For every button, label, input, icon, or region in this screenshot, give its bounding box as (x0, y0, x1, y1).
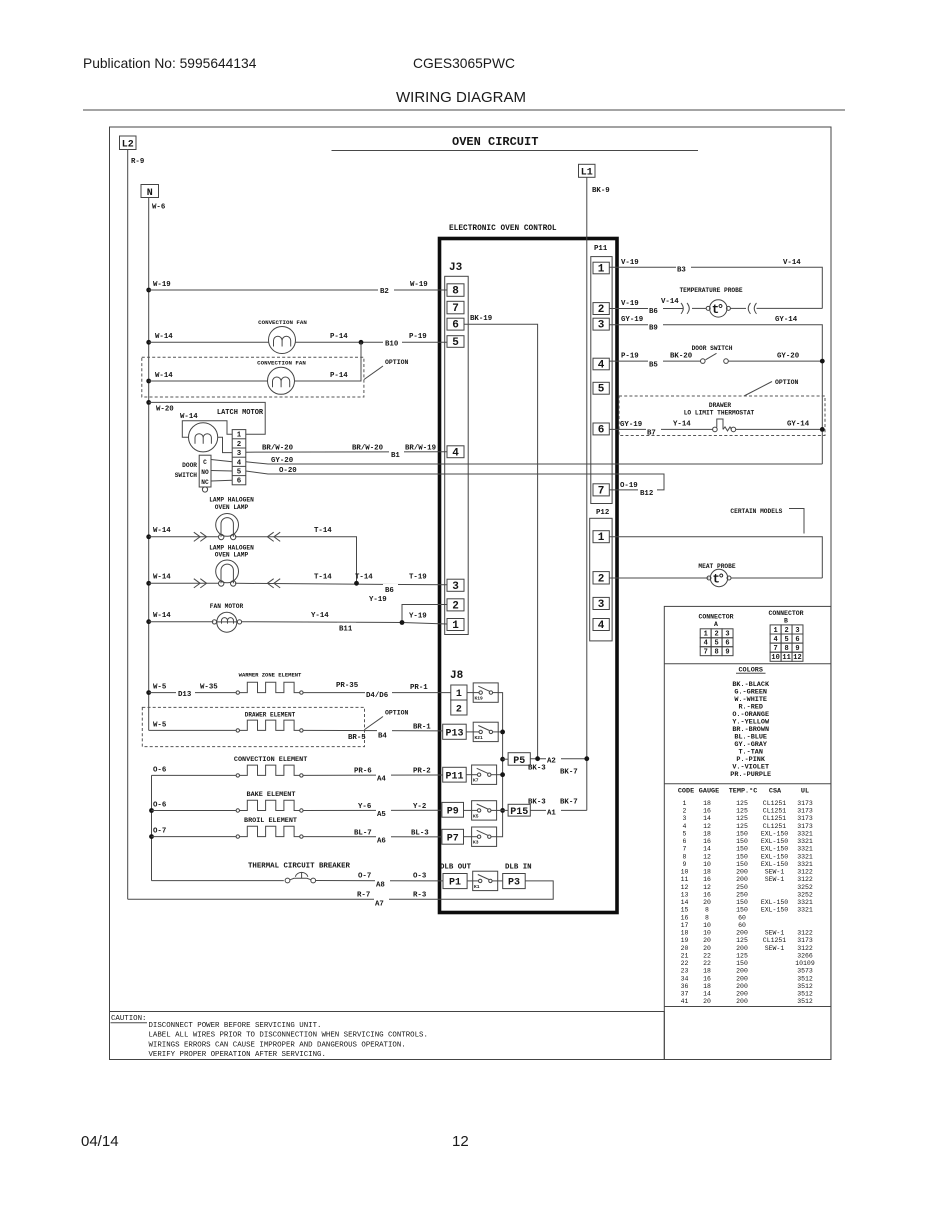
svg-text:B4: B4 (378, 733, 387, 741)
svg-text:10109: 10109 (795, 960, 815, 967)
svg-text:8: 8 (683, 853, 687, 860)
svg-text:O-20: O-20 (279, 467, 297, 475)
table block divider under connectors (664, 663, 831, 665)
svg-text:8: 8 (705, 907, 709, 914)
svg-text:4: 4 (773, 636, 777, 644)
svg-text:15: 15 (681, 907, 689, 914)
svg-text:7: 7 (598, 485, 605, 497)
svg-text:P12: P12 (596, 509, 609, 517)
svg-text:GY-14: GY-14 (787, 421, 810, 429)
svg-text:3122: 3122 (797, 930, 813, 937)
svg-text:J3: J3 (449, 262, 463, 274)
svg-text:GY-14: GY-14 (775, 316, 798, 324)
svg-text:200: 200 (736, 983, 748, 990)
svg-text:1: 1 (452, 620, 459, 632)
svg-text:10: 10 (703, 930, 711, 937)
svg-text:K7: K7 (473, 778, 479, 784)
svg-text:10: 10 (681, 869, 689, 876)
svg-text:A2: A2 (547, 758, 556, 766)
svg-text:200: 200 (736, 998, 748, 1005)
svg-text:T-14: T-14 (314, 527, 332, 535)
svg-text:EXL-150: EXL-150 (761, 831, 788, 838)
svg-text:B10: B10 (385, 341, 399, 349)
svg-text:8: 8 (784, 645, 788, 653)
svg-text:THERMAL CIRCUIT BREAKER: THERMAL CIRCUIT BREAKER (248, 863, 351, 871)
svg-text:16: 16 (703, 891, 711, 898)
svg-text:B7: B7 (647, 430, 656, 438)
junction dots on O rail (149, 808, 154, 839)
svg-text:B6: B6 (385, 587, 394, 595)
wire B3 from P11-1 (609, 267, 822, 308)
svg-text:P11: P11 (445, 771, 463, 782)
svg-text:BR-5: BR-5 (348, 734, 366, 742)
svg-text:4: 4 (598, 360, 605, 372)
svg-text:125: 125 (736, 800, 748, 807)
svg-text:3173: 3173 (797, 815, 813, 822)
svg-text:DLB IN: DLB IN (505, 864, 532, 872)
svg-text:TEMP.°C: TEMP.°C (729, 787, 758, 796)
svg-text:150: 150 (736, 960, 748, 967)
svg-text:5: 5 (237, 469, 242, 477)
svg-text:A4: A4 (377, 776, 386, 784)
svg-text:16: 16 (703, 808, 711, 815)
svg-text:22: 22 (703, 960, 711, 967)
svg-text:2: 2 (452, 600, 459, 612)
svg-text:GY-20: GY-20 (271, 457, 294, 465)
svg-text:6: 6 (725, 640, 729, 648)
svg-text:W-14: W-14 (153, 612, 171, 620)
svg-text:150: 150 (736, 899, 748, 906)
svg-text:OPTION: OPTION (385, 359, 409, 366)
svg-text:BAKE ELEMENT: BAKE ELEMENT (247, 791, 296, 799)
svg-text:B: B (784, 618, 788, 625)
svg-text:BK-7: BK-7 (560, 799, 578, 807)
svg-text:125: 125 (736, 937, 748, 944)
junction dot fan lines (359, 340, 364, 345)
connector P11 board (443, 767, 467, 782)
svg-text:3: 3 (683, 815, 687, 822)
svg-text:PR-1: PR-1 (410, 684, 428, 692)
svg-text:PR.-PURPLE: PR.-PURPLE (730, 771, 771, 779)
svg-text:3252: 3252 (797, 884, 813, 891)
svg-text:3173: 3173 (797, 937, 813, 944)
svg-text:20: 20 (703, 998, 711, 1005)
svg-text:5: 5 (714, 640, 718, 648)
svg-text:BK-20: BK-20 (670, 353, 693, 361)
svg-text:K5: K5 (473, 813, 479, 819)
svg-text:T-19: T-19 (409, 574, 427, 582)
svg-text:B3: B3 (677, 267, 686, 275)
svg-text:14: 14 (703, 991, 711, 998)
connector P9 (442, 802, 464, 817)
svg-text:3512: 3512 (797, 983, 813, 990)
svg-text:20: 20 (703, 937, 711, 944)
svg-text:CONVECTION FAN: CONVECTION FAN (258, 319, 307, 326)
svg-text:P7: P7 (447, 833, 459, 844)
wire W-14 fan1 to B10 to J3-5 (149, 341, 269, 343)
svg-text:t°: t° (712, 303, 723, 317)
connector P15 (508, 804, 530, 816)
svg-text:200: 200 (736, 945, 748, 952)
svg-text:18: 18 (703, 968, 711, 975)
svg-text:200: 200 (736, 991, 748, 998)
svg-text:4: 4 (237, 459, 242, 467)
svg-text:UL: UL (801, 788, 809, 796)
connector P7 (442, 829, 464, 844)
svg-text:P-14: P-14 (330, 372, 348, 380)
svg-text:2: 2 (683, 808, 687, 815)
svg-text:37: 37 (681, 991, 689, 998)
svg-text:J8: J8 (450, 670, 464, 682)
svg-text:9: 9 (795, 645, 799, 653)
svg-text:3321: 3321 (797, 861, 813, 868)
junction dot lamp lines (354, 581, 359, 586)
svg-text:A1: A1 (547, 810, 556, 818)
svg-text:200: 200 (736, 876, 748, 883)
svg-text:CONNECTOR: CONNECTOR (768, 610, 803, 617)
svg-text:B5: B5 (649, 362, 658, 370)
svg-text:B1: B1 (391, 452, 400, 460)
svg-text:3321: 3321 (797, 838, 813, 845)
svg-text:18: 18 (681, 930, 689, 937)
svg-text:16: 16 (703, 838, 711, 845)
svg-text:3252: 3252 (797, 891, 813, 898)
svg-text:CSA: CSA (769, 788, 782, 796)
OVEN CIRCUIT underline (332, 150, 699, 152)
svg-text:20: 20 (681, 945, 689, 952)
relay output bus (497, 693, 503, 837)
svg-text:250: 250 (736, 884, 748, 891)
svg-text:K3: K3 (473, 840, 479, 846)
svg-text:3321: 3321 (797, 899, 813, 906)
thermostat (609, 428, 712, 430)
relay K1 (473, 871, 498, 890)
junction dots on N rail (146, 288, 151, 695)
svg-text:B9: B9 (649, 325, 658, 333)
svg-text:3321: 3321 (797, 831, 813, 838)
svg-text:LAMP HALOGEN: LAMP HALOGEN (209, 544, 254, 551)
svg-text:60: 60 (738, 922, 746, 929)
svg-text:3266: 3266 (797, 952, 813, 959)
svg-text:9: 9 (725, 649, 729, 657)
svg-text:P-14: P-14 (330, 333, 348, 341)
svg-text:3: 3 (725, 631, 729, 639)
svg-text:BK-9: BK-9 (592, 187, 610, 195)
svg-text:OVEN CIRCUIT: OVEN CIRCUIT (452, 135, 538, 149)
svg-text:A8: A8 (376, 882, 385, 890)
svg-text:CONNECTOR: CONNECTOR (698, 614, 733, 621)
svg-text:8: 8 (705, 914, 709, 921)
svg-text:150: 150 (736, 838, 748, 845)
svg-text:11: 11 (681, 876, 689, 883)
svg-text:250: 250 (736, 891, 748, 898)
node L1 (579, 164, 596, 177)
wire O-20 long return line (246, 471, 664, 490)
svg-text:5: 5 (784, 636, 788, 644)
caution box (110, 1012, 665, 1060)
wire W-14 latch lead to pin1 (182, 421, 232, 438)
svg-text:Y-2: Y-2 (413, 803, 426, 811)
svg-text:FAN MOTOR: FAN MOTOR (210, 603, 244, 610)
wire L2 rail R-9 (127, 150, 129, 900)
svg-text:3122: 3122 (797, 869, 813, 876)
svg-text:P13: P13 (445, 728, 463, 739)
svg-text:B11: B11 (339, 626, 353, 634)
svg-text:125: 125 (736, 823, 748, 830)
svg-text:SWITCH: SWITCH (175, 472, 198, 479)
wire W-14 fan motor line Y-19 to J3-1 (149, 621, 214, 623)
svg-text:T-14: T-14 (355, 574, 373, 582)
svg-text:Y-19: Y-19 (409, 613, 427, 621)
svg-text:12: 12 (703, 823, 711, 830)
svg-text:WIRING DIAGRAM: WIRING DIAGRAM (396, 89, 526, 106)
svg-text:200: 200 (736, 930, 748, 937)
svg-text:VERIFY PROPER OPERATION AFTER: VERIFY PROPER OPERATION AFTER SERVICING. (149, 1051, 326, 1059)
svg-text:GY-20: GY-20 (777, 353, 800, 361)
svg-text:K19: K19 (475, 696, 484, 702)
svg-text:5: 5 (452, 337, 459, 349)
table block outer box (664, 606, 831, 1059)
svg-text:1: 1 (598, 264, 605, 276)
svg-text:Y-14: Y-14 (311, 612, 329, 620)
svg-text:CL1251: CL1251 (763, 937, 787, 944)
svg-text:EXL-150: EXL-150 (761, 838, 788, 845)
svg-text:200: 200 (736, 975, 748, 982)
svg-text:3321: 3321 (797, 846, 813, 853)
svg-text:16: 16 (703, 975, 711, 982)
svg-text:DLB OUT: DLB OUT (440, 864, 472, 872)
svg-text:Y-6: Y-6 (358, 803, 372, 811)
svg-text:P9: P9 (447, 806, 459, 817)
svg-text:P11: P11 (594, 245, 608, 253)
svg-text:W-14: W-14 (153, 574, 171, 582)
relay K19 (473, 683, 498, 702)
svg-text:21: 21 (681, 952, 689, 959)
svg-text:A6: A6 (377, 838, 386, 846)
svg-text:7: 7 (704, 649, 708, 657)
svg-text:150: 150 (736, 861, 748, 868)
svg-text:EXL-150: EXL-150 (761, 861, 788, 868)
wire Y-19 branch to J3-2 (402, 605, 447, 623)
svg-text:2: 2 (598, 573, 605, 585)
svg-text:R-7: R-7 (357, 892, 370, 900)
svg-text:N: N (147, 188, 153, 199)
svg-text:Y-19: Y-19 (369, 596, 387, 604)
svg-text:BR/W-20: BR/W-20 (262, 445, 294, 453)
node N (141, 185, 159, 198)
latch connector strip pins 1-6 (232, 430, 246, 485)
svg-text:1: 1 (237, 432, 242, 440)
svg-text:C: C (203, 459, 207, 466)
svg-text:36: 36 (681, 983, 689, 990)
wire W-19 to J3-8 (149, 289, 447, 291)
svg-text:150: 150 (736, 853, 748, 860)
svg-text:P3: P3 (508, 878, 520, 889)
svg-text:CONVECTION ELEMENT: CONVECTION ELEMENT (234, 756, 307, 764)
svg-text:12: 12 (681, 884, 689, 891)
svg-text:PR-6: PR-6 (354, 768, 372, 776)
svg-text:B2: B2 (380, 288, 389, 296)
svg-text:3: 3 (452, 581, 459, 593)
wire gauge table rows (681, 800, 815, 1005)
svg-text:9: 9 (683, 861, 687, 868)
connector P13 (443, 724, 467, 739)
wire BR/W-20 pin3 to B1 to J3-4 (246, 451, 447, 454)
svg-text:SEW-1: SEW-1 (765, 945, 785, 952)
svg-text:Y-14: Y-14 (673, 421, 691, 429)
connector chevrons lamp1 (194, 532, 280, 541)
wire N rail W-6 (148, 198, 150, 731)
svg-text:18: 18 (703, 831, 711, 838)
svg-text:1: 1 (456, 689, 462, 700)
svg-text:LAMP HALOGEN: LAMP HALOGEN (209, 497, 254, 504)
svg-text:MEAT PROBE: MEAT PROBE (698, 563, 735, 570)
svg-text:P5: P5 (513, 756, 525, 767)
svg-text:125: 125 (736, 815, 748, 822)
svg-text:W-5: W-5 (153, 684, 167, 692)
svg-text:4: 4 (704, 640, 708, 648)
svg-text:PR-2: PR-2 (413, 768, 431, 776)
svg-text:B12: B12 (640, 490, 653, 498)
svg-text:P-19: P-19 (409, 333, 427, 341)
svg-text:DOOR: DOOR (182, 462, 197, 469)
svg-text:6: 6 (598, 424, 605, 436)
svg-text:150: 150 (736, 907, 748, 914)
svg-text:200: 200 (736, 968, 748, 975)
svg-text:BK-7: BK-7 (560, 769, 578, 777)
svg-text:10: 10 (703, 922, 711, 929)
svg-text:LATCH MOTOR: LATCH MOTOR (217, 409, 264, 417)
svg-text:P15: P15 (510, 807, 528, 818)
svg-text:BR/W-19: BR/W-19 (405, 445, 436, 453)
svg-text:EXL-150: EXL-150 (761, 853, 788, 860)
electronic oven control box (440, 239, 618, 913)
svg-text:GAUGE: GAUGE (699, 788, 719, 796)
svg-text:PR-35: PR-35 (336, 682, 359, 690)
svg-text:7: 7 (452, 303, 459, 315)
svg-text:BL-3: BL-3 (411, 830, 429, 838)
wires door switch C NO NC to pins 4 5 6 (211, 460, 232, 462)
svg-text:6: 6 (452, 320, 459, 332)
svg-text:8: 8 (452, 286, 459, 298)
svg-text:B6: B6 (649, 308, 658, 316)
svg-text:W-14: W-14 (180, 413, 198, 421)
svg-text:DISCONNECT POWER BEFORE SERVIC: DISCONNECT POWER BEFORE SERVICING UNIT. (149, 1022, 322, 1030)
svg-text:4: 4 (452, 447, 459, 459)
wire B9 GY-14 (609, 325, 822, 464)
svg-text:1: 1 (773, 627, 777, 635)
svg-text:2: 2 (237, 441, 241, 449)
svg-text:13: 13 (681, 891, 689, 898)
node L2 (120, 136, 137, 150)
header rule line (83, 109, 845, 111)
svg-text:22: 22 (681, 960, 689, 967)
svg-text:LO LIMIT THERMOSTAT: LO LIMIT THERMOSTAT (684, 410, 755, 417)
svg-text:W-14: W-14 (155, 372, 173, 380)
svg-text:A5: A5 (377, 811, 386, 819)
svg-text:WIRINGS ERRORS CAN CAUSE IMPRO: WIRINGS ERRORS CAN CAUSE IMPROPER AND DA… (149, 1041, 406, 1049)
svg-text:8: 8 (714, 649, 718, 657)
svg-text:6: 6 (795, 636, 799, 644)
svg-text:V-19: V-19 (621, 259, 639, 267)
svg-text:150: 150 (736, 831, 748, 838)
wire A1 from P15 to L1 line (530, 809, 587, 811)
svg-text:20: 20 (703, 945, 711, 952)
svg-text:OPTION: OPTION (385, 710, 409, 717)
svg-text:A: A (714, 621, 718, 628)
svg-text:BL-7: BL-7 (354, 830, 372, 838)
svg-text:P-19: P-19 (621, 353, 639, 361)
svg-text:4: 4 (598, 620, 605, 632)
svg-text:K1: K1 (474, 884, 480, 890)
svg-text:6: 6 (237, 478, 242, 486)
svg-text:W-19: W-19 (410, 281, 428, 289)
svg-text:CGES3065PWC: CGES3065PWC (413, 56, 515, 71)
wire L1 BK-9 drop into control (586, 177, 588, 810)
svg-text:3321: 3321 (797, 907, 813, 914)
svg-text:BR-1: BR-1 (413, 724, 431, 732)
svg-text:NC: NC (201, 479, 209, 486)
svg-text:3173: 3173 (797, 808, 813, 815)
connector P5 (508, 753, 530, 766)
svg-text:CL1251: CL1251 (763, 815, 787, 822)
svg-text:D13: D13 (178, 691, 192, 699)
svg-text:12: 12 (793, 654, 801, 662)
svg-text:5: 5 (598, 384, 605, 396)
svg-text:W-14: W-14 (155, 333, 173, 341)
relay K5 (472, 801, 497, 820)
svg-text:BK-3: BK-3 (528, 799, 546, 807)
svg-text:V-19: V-19 (621, 300, 639, 308)
svg-text:WARMER ZONE ELEMENT: WARMER ZONE ELEMENT (239, 672, 302, 679)
svg-text:60: 60 (738, 914, 746, 921)
svg-text:CODE: CODE (678, 788, 694, 796)
svg-text:D4/D6: D4/D6 (366, 692, 389, 700)
svg-text:EXL-150: EXL-150 (761, 907, 788, 914)
svg-text:A7: A7 (375, 901, 384, 909)
svg-text:O-6: O-6 (153, 802, 167, 810)
svg-text:3512: 3512 (797, 991, 813, 998)
svg-text:14: 14 (703, 846, 711, 853)
svg-text:NO: NO (201, 469, 209, 476)
svg-text:R-9: R-9 (131, 158, 144, 166)
svg-text:SEW-1: SEW-1 (765, 876, 785, 883)
svg-text:W-20: W-20 (156, 406, 174, 414)
svg-text:BROIL ELEMENT: BROIL ELEMENT (244, 817, 297, 825)
svg-text:2: 2 (598, 304, 605, 316)
caution text (149, 1022, 428, 1059)
svg-text:LABEL ALL WIRES PRIOR TO DISCO: LABEL ALL WIRES PRIOR TO DISCONNECTION W… (149, 1032, 428, 1040)
svg-text:DRAWER ELEMENT: DRAWER ELEMENT (245, 712, 296, 719)
wire A2 from P5 to L1 line (530, 758, 587, 760)
svg-text:2: 2 (784, 627, 788, 635)
svg-text:CL1251: CL1251 (763, 800, 787, 807)
svg-text:3: 3 (237, 450, 242, 458)
svg-text:3: 3 (598, 320, 605, 332)
wire W-14 lamp1 line (149, 536, 219, 538)
latch motor (189, 423, 218, 452)
svg-text:L1: L1 (581, 168, 593, 179)
svg-text:3: 3 (598, 599, 605, 611)
svg-text:O-7: O-7 (153, 828, 166, 836)
svg-text:SEW-1: SEW-1 (765, 869, 785, 876)
svg-text:BR/W-20: BR/W-20 (352, 445, 384, 453)
svg-text:1: 1 (683, 800, 687, 807)
wire O rail (151, 775, 153, 880)
svg-text:1: 1 (704, 631, 708, 639)
svg-text:41: 41 (681, 998, 689, 1005)
svg-text:3122: 3122 (797, 945, 813, 952)
